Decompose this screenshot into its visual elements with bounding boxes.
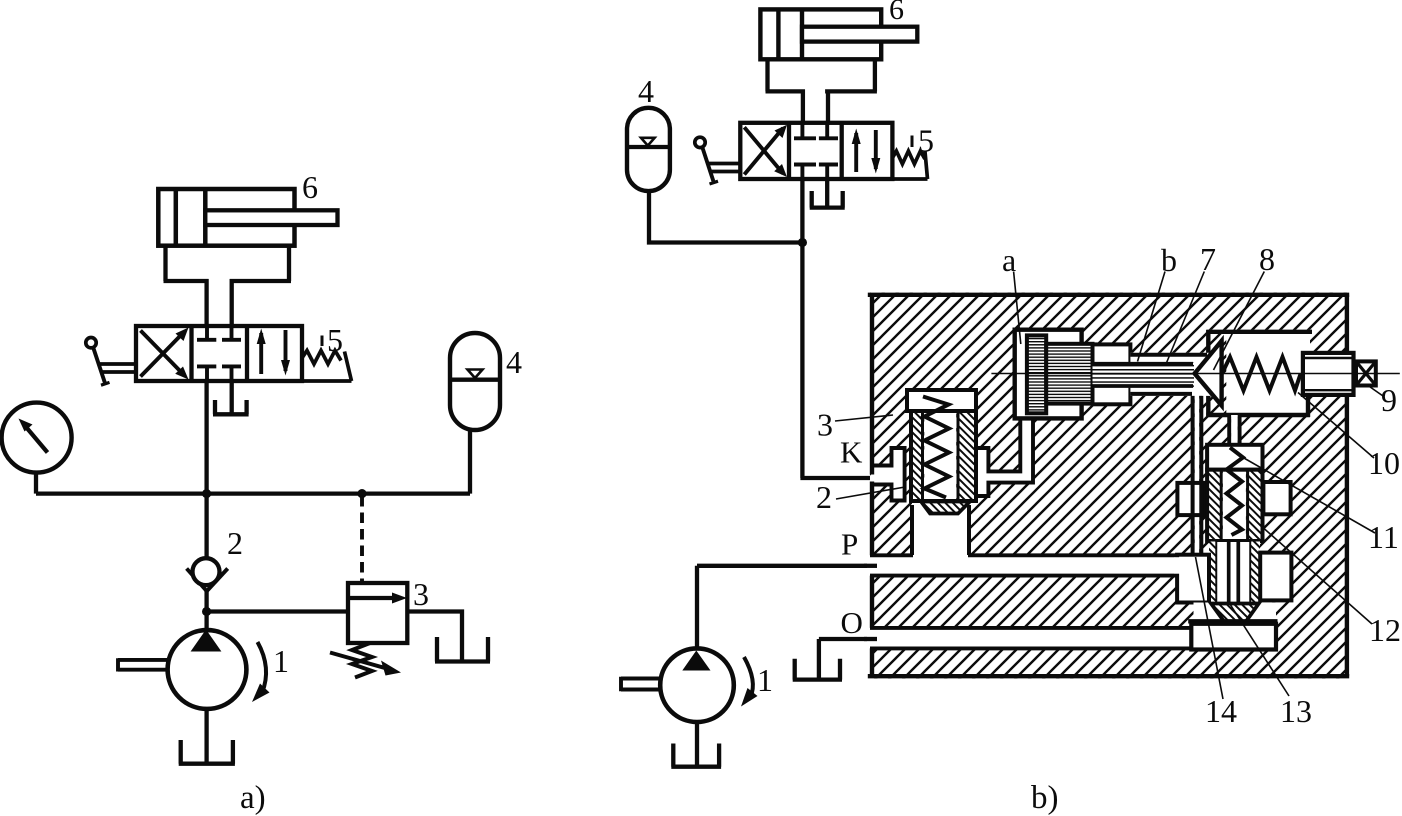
cylinder 6 (diagram a) bbox=[158, 189, 337, 246]
pilot valve spring chamber white bbox=[924, 413, 956, 499]
svg-text:14: 14 bbox=[1205, 693, 1237, 729]
svg-text:2: 2 bbox=[227, 525, 243, 561]
svg-text:1: 1 bbox=[273, 643, 289, 679]
check valve 2 (diagram a) bbox=[187, 558, 228, 611]
damping rod b (grooved) bbox=[1093, 362, 1195, 388]
svg-text:6: 6 bbox=[302, 169, 318, 205]
svg-text:P: P bbox=[841, 527, 858, 562]
svg-text:5: 5 bbox=[918, 123, 934, 159]
junction node (pump-relief a) bbox=[202, 607, 211, 616]
spool axis line bbox=[991, 373, 1399, 375]
spring chamber (white, top-right) bbox=[1206, 330, 1310, 417]
svg-text:7: 7 bbox=[1200, 241, 1216, 277]
wire valve to check valve (diagram a) bbox=[204, 379, 208, 560]
pilot valve bottom passage (white column to P) bbox=[912, 503, 969, 555]
leader and label 3 (block) bbox=[835, 415, 893, 421]
tick label 5a bbox=[321, 336, 324, 347]
cylinder 6 (diagram b) bbox=[760, 9, 917, 59]
adjustable spring of relief 3 (diagram a) bbox=[330, 643, 401, 678]
pilot valve 3 cartridge: K slot white bbox=[873, 448, 904, 501]
return spring (valve 5b) bbox=[892, 151, 927, 180]
unloading valve spool flanks (hatched) bbox=[1209, 542, 1215, 606]
svg-text:10: 10 bbox=[1368, 445, 1400, 481]
wire bracket cylinder-to-valve (diagram b) bbox=[766, 58, 877, 125]
svg-text:b): b) bbox=[1031, 780, 1059, 816]
pump 1 (diagram a) bbox=[118, 612, 270, 709]
unloading valve cartridge outline bbox=[1207, 470, 1262, 541]
leader and label 13 bbox=[1228, 601, 1289, 696]
tank under valve (diagram a) bbox=[213, 379, 249, 414]
seat block (hatched, inside chamber) bbox=[1206, 332, 1226, 415]
leader and label 12 bbox=[1260, 525, 1372, 624]
unloading valve spring 13 bbox=[1227, 448, 1244, 536]
tank under pump (diagram b) bbox=[671, 722, 721, 767]
svg-text:3: 3 bbox=[413, 576, 429, 612]
pilot valve right groove and channel to piston chamber bbox=[976, 418, 1033, 496]
relief valve 3 (diagram a) bbox=[348, 583, 407, 643]
poppet cone 7 bbox=[1195, 341, 1222, 406]
main wire valve-to-block K (diagram b) bbox=[800, 179, 872, 478]
tank under pump (diagram a) bbox=[179, 709, 235, 764]
P channel (white bore in block) bbox=[864, 554, 1177, 578]
unloading valve upper side ports (white) bbox=[1177, 483, 1203, 515]
bore (white) bbox=[1130, 353, 1206, 396]
tick label 5b bbox=[911, 136, 914, 148]
O return wire and tank (diagram b) bbox=[793, 639, 872, 680]
leader and label b bbox=[1138, 272, 1166, 362]
block borders bbox=[868, 295, 1349, 676]
unloading valve stem bore bbox=[1215, 542, 1251, 612]
tank under valve (diagram b) bbox=[810, 177, 845, 208]
P supply wire (diagram b) bbox=[697, 564, 872, 568]
spool mid section (grooved) bbox=[1046, 344, 1092, 404]
directional valve 5 (diagram b) bbox=[740, 123, 892, 179]
svg-text:3: 3 bbox=[817, 407, 833, 443]
directional valve 5 (diagram a) bbox=[136, 326, 302, 381]
pressure gauge (diagram a) bbox=[2, 403, 72, 494]
svg-text:6: 6 bbox=[889, 0, 904, 26]
wire to relief valve (diagram a) bbox=[207, 609, 350, 613]
spring chamber borders bbox=[1206, 330, 1312, 417]
leader and label 2 (block) bbox=[836, 487, 905, 499]
svg-text:11: 11 bbox=[1368, 519, 1399, 555]
leader and label a bbox=[1014, 272, 1021, 345]
valve seat 14 (white ring + hatched trapezoid) bbox=[1188, 603, 1277, 623]
unloading valve lower chambers (white) bbox=[1177, 555, 1209, 603]
pilot valve cartridge outline bbox=[911, 411, 976, 501]
leader and label 14 bbox=[1196, 557, 1224, 699]
leader and label 7 bbox=[1166, 272, 1204, 365]
accumulator 4 (diagram b) bbox=[627, 108, 802, 243]
svg-text:13: 13 bbox=[1280, 693, 1312, 729]
leader and label 8 bbox=[1214, 272, 1265, 371]
pilot dashed wire (diagram a) bbox=[360, 496, 364, 581]
spool piston a (finely grooved) bbox=[1027, 335, 1046, 413]
svg-text:5: 5 bbox=[327, 322, 343, 358]
leader and label 9 bbox=[1368, 386, 1383, 397]
manual lever (valve 5a) bbox=[86, 338, 137, 386]
spool chamber (white, top-left) bbox=[1015, 330, 1082, 419]
valve block body (hatched housing, diagram b) bbox=[870, 293, 1347, 679]
adjusting plug 10 bbox=[1303, 353, 1354, 395]
manual lever (valve 5b) bbox=[695, 137, 741, 184]
bus wire (diagram a) bbox=[36, 491, 470, 495]
unloading valve: channel from spring chamber down bbox=[1229, 415, 1239, 446]
unloading valve spring bore white bbox=[1223, 471, 1246, 539]
svg-text:2: 2 bbox=[816, 479, 832, 515]
adjustment screw symbol 9 (box with X) bbox=[1356, 361, 1376, 385]
leader and label 10 bbox=[1298, 393, 1374, 459]
relief valve outlet wire and tank (diagram a) bbox=[407, 612, 490, 662]
pilot valve spring 3 bbox=[923, 397, 949, 498]
svg-text:a: a bbox=[1002, 242, 1016, 278]
svg-text:b: b bbox=[1161, 242, 1177, 278]
svg-text:12: 12 bbox=[1369, 612, 1401, 648]
junction node (bus-pump line a) bbox=[202, 489, 211, 498]
svg-text:1: 1 bbox=[757, 662, 773, 698]
bottom plug 14 (white) bbox=[1191, 624, 1276, 650]
main spring 8 bbox=[1222, 357, 1301, 391]
unloading valve cap 11 bbox=[1207, 445, 1262, 470]
pilot valve seat (hatched poppet) bbox=[921, 502, 970, 514]
P channel borders bbox=[870, 555, 1178, 575]
return spring (valve 5a) bbox=[302, 351, 352, 382]
pilot valve cap bbox=[907, 390, 976, 411]
svg-text:9: 9 bbox=[1381, 382, 1397, 418]
svg-text:4: 4 bbox=[506, 344, 522, 380]
svg-text:O: O bbox=[841, 605, 863, 640]
pilot valve sleeve (hatched) bbox=[911, 411, 923, 501]
junction node (bus-pilot line a) bbox=[357, 489, 366, 498]
wire bracket cylinder-to-valve (diagram a) bbox=[164, 244, 292, 328]
svg-text:a): a) bbox=[240, 780, 266, 816]
pump 1 (diagram b) bbox=[621, 566, 758, 722]
drain channel walls bbox=[1191, 396, 1195, 556]
svg-text:8: 8 bbox=[1259, 241, 1275, 277]
accumulator 4 (diagram a) bbox=[450, 333, 500, 494]
junction node (accumulator-main b) bbox=[798, 238, 807, 247]
leader and label 11 bbox=[1243, 458, 1375, 534]
drain channel (vertical white below bore) bbox=[1195, 392, 1200, 555]
svg-text:K: K bbox=[840, 435, 863, 470]
O channel (white bore in block) bbox=[864, 626, 1193, 650]
unloading valve sleeve (hatched) bbox=[1207, 470, 1221, 541]
svg-text:4: 4 bbox=[638, 73, 654, 109]
spool collar bbox=[1093, 344, 1131, 404]
